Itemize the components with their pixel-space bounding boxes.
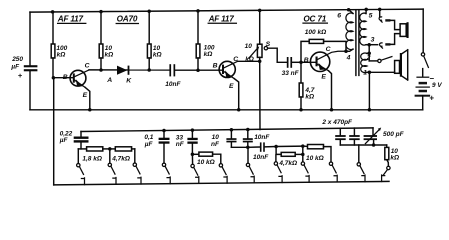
svg-text:1,8 kΩ: 1,8 kΩ xyxy=(82,155,102,162)
svg-text:µF: µF xyxy=(144,141,154,148)
resistor R10 4.7kOhm xyxy=(276,147,303,168)
junction: Q1 emitter to 0V rail xyxy=(88,108,92,112)
resistor R3 10kOhm xyxy=(147,10,161,70)
svg-text:B: B xyxy=(213,62,218,69)
switch SW3 xyxy=(133,149,141,184)
resistor R2 10kOhm xyxy=(99,10,113,70)
resistor R5 100kOhm feedback xyxy=(301,29,346,62)
label: AF117 second stage xyxy=(208,14,237,23)
switch SW11 xyxy=(357,145,365,182)
junction: Q1 base node xyxy=(52,76,56,80)
wire: Q1 base lead xyxy=(53,77,73,79)
junction: between R7 and R8 xyxy=(108,147,112,151)
wire: pot bottom down to tone bus (crosses 0V rail) xyxy=(259,61,261,129)
svg-text:5: 5 xyxy=(369,13,373,20)
svg-text:kΩ: kΩ xyxy=(57,52,66,59)
svg-text:10nF: 10nF xyxy=(165,81,181,88)
svg-text:6: 6 xyxy=(337,13,341,20)
svg-text:33 nF: 33 nF xyxy=(282,70,300,77)
junction: OC71 collector / transformer primary node xyxy=(344,50,348,54)
wire: left antenna lead down to C 250uF xyxy=(29,12,31,65)
wire: base node down to tone switch bank xyxy=(53,78,55,185)
junction: secondary pin5 to +9V rail xyxy=(364,8,368,12)
svg-text:+: + xyxy=(18,71,23,80)
junction: R3 to signal line xyxy=(147,68,151,72)
svg-text:100 kΩ: 100 kΩ xyxy=(305,29,326,36)
wire: C 250uF to 0V rail xyxy=(29,71,31,110)
wire: speaker LS2 bottom lead xyxy=(369,71,394,73)
capacitor C7 10nF xyxy=(243,128,271,148)
svg-text:nF: nF xyxy=(211,141,220,148)
capacitor C4 0.1uF xyxy=(144,129,170,148)
label: OC71 xyxy=(303,14,327,23)
wire: C6/C7 bottoms joined xyxy=(231,146,247,148)
svg-text:A: A xyxy=(106,77,112,84)
svg-text:250: 250 xyxy=(11,56,23,63)
wire: +9V top supply rail xyxy=(30,9,423,12)
svg-text:kΩ: kΩ xyxy=(245,56,254,63)
wire: switch common bottom bus xyxy=(54,181,389,185)
wire: vertical through R10/R11 node xyxy=(302,146,304,162)
svg-text:10: 10 xyxy=(245,43,253,50)
label: OA70 xyxy=(116,15,138,24)
capacitor C3 0.22uF xyxy=(59,131,89,149)
svg-text:C: C xyxy=(326,46,331,53)
switch SW2 xyxy=(108,149,116,184)
wire: C8 to R10 node xyxy=(265,145,303,148)
switch SW4 xyxy=(162,144,170,184)
svg-text:10 kΩ: 10 kΩ xyxy=(306,155,324,162)
switch SW1 xyxy=(77,149,85,185)
junction: speaker return / pin1 node xyxy=(368,71,372,75)
capacitor C1 10nF coupling xyxy=(165,64,181,88)
svg-text:C: C xyxy=(85,63,90,70)
capacitor C8 10nF series xyxy=(248,142,269,161)
junction: R4 to Q2 base line xyxy=(196,68,200,72)
junction: R11 left node xyxy=(301,144,305,148)
svg-text:2 x 470pF: 2 x 470pF xyxy=(321,119,353,126)
switch SW8 xyxy=(274,155,282,183)
svg-text:OA70: OA70 xyxy=(117,15,138,24)
capacitor C10 470pF xyxy=(349,128,360,145)
svg-text:µF: µF xyxy=(10,63,20,70)
resistor R1 100kOhm xyxy=(51,10,68,78)
svg-text:+: + xyxy=(429,94,434,103)
capacitor C6 10nF xyxy=(211,128,237,148)
resistor R12 10kOhm xyxy=(385,145,399,166)
battery BT1 9V xyxy=(415,69,443,110)
svg-text:1: 1 xyxy=(363,70,367,77)
wire: right edge down to power switch xyxy=(422,9,424,53)
svg-text:3: 3 xyxy=(371,37,375,44)
earphone jack lower contact from pin3 xyxy=(369,34,400,49)
speaker LS1 (earphone) xyxy=(400,22,409,38)
svg-text:B: B xyxy=(304,57,309,64)
switch SW5 xyxy=(191,154,199,183)
svg-text:E: E xyxy=(83,92,88,99)
transformer T1 secondary winding (pins 5-3) xyxy=(360,9,375,45)
speaker LS2 (main) xyxy=(395,50,408,80)
wire: 0V bottom rail xyxy=(30,109,423,111)
svg-text:10nF: 10nF xyxy=(254,134,270,141)
junction: pin1 to 0V rail xyxy=(368,108,372,112)
potentiometer P1 10kOhm volume with switch S xyxy=(245,9,262,64)
transformer T1 secondary winding (pins 2-1) xyxy=(361,53,371,77)
wire: pin3 to pin2 link and to speaker switch xyxy=(368,45,370,61)
wire: S contact to C 33nF xyxy=(268,48,287,62)
resistor R9 10kOhm xyxy=(192,152,220,166)
wire: branch node to R 1.8k xyxy=(78,148,86,150)
svg-text:500 pF: 500 pF xyxy=(383,131,405,138)
svg-text:AF 117: AF 117 xyxy=(57,15,84,24)
switch S wiper contact xyxy=(264,41,270,50)
capacitor C11 500pF variable xyxy=(364,128,405,146)
svg-text:E: E xyxy=(229,83,234,90)
switch SW7 xyxy=(246,147,254,183)
svg-text:4,7kΩ: 4,7kΩ xyxy=(111,155,130,162)
junction: Q3 emitter to 0V rail xyxy=(330,108,334,112)
svg-text:E: E xyxy=(321,74,326,81)
wire: tuning cap bottom line xyxy=(340,144,386,146)
switch SW12 xyxy=(382,166,390,181)
junction: Q2 collector / pot node xyxy=(258,60,262,64)
wire: C 10nF to Q2 base xyxy=(175,69,222,71)
junction: R6 to 0V rail xyxy=(299,108,303,112)
junction: R10/R11 node xyxy=(301,153,305,157)
resistor R11 10kOhm xyxy=(303,145,331,162)
svg-text:4,7kΩ: 4,7kΩ xyxy=(278,160,297,167)
switch: on/off power switch xyxy=(421,53,428,68)
svg-text:10nF: 10nF xyxy=(253,154,269,161)
resistor R7 1.8kOhm xyxy=(82,147,102,163)
label: AF117 first stage xyxy=(57,15,86,24)
junction: pin2 node xyxy=(367,52,371,56)
svg-text:kΩ: kΩ xyxy=(390,154,399,161)
svg-text:OC 71: OC 71 xyxy=(303,14,326,23)
transistor Q2 AF117 xyxy=(213,56,239,110)
svg-text:10 kΩ: 10 kΩ xyxy=(197,159,215,166)
svg-text:kΩ: kΩ xyxy=(153,52,162,59)
wire: tone network top bus xyxy=(81,128,373,132)
resistor R4 100kOhm xyxy=(196,9,215,70)
switch SW9 xyxy=(301,162,309,182)
junction: Q3 base node xyxy=(299,61,303,65)
svg-text:nF: nF xyxy=(176,141,185,148)
junction: C5 bottom node xyxy=(191,153,195,157)
diode D1 OA70 xyxy=(106,66,132,85)
capacitor 250uF xyxy=(10,56,37,80)
junction: series cap node xyxy=(246,146,250,150)
wire: R 1.8k to R 4.7k xyxy=(103,148,116,150)
transistor Q3 OC71 xyxy=(301,46,346,110)
wire: detector signal line Q1 collector to C 10nF xyxy=(89,69,169,71)
switch SW6 xyxy=(219,164,227,184)
svg-text:9 V: 9 V xyxy=(432,82,442,89)
transformer T1 primary winding (pins 6-4) xyxy=(337,10,353,62)
junction: C8 right node xyxy=(274,145,278,149)
svg-text:B: B xyxy=(63,74,68,81)
resistor R6 4.7kOhm xyxy=(299,62,315,110)
svg-text:AF 117: AF 117 xyxy=(208,14,235,23)
resistor R8 4.7kOhm xyxy=(111,147,131,163)
wire: Q2 collector to volume pot xyxy=(238,60,260,62)
junction: pin3 node xyxy=(367,43,371,47)
transistor Q1 AF117 xyxy=(63,63,90,110)
switch SW10 xyxy=(329,162,337,182)
junction: R2 to signal line xyxy=(99,68,103,72)
capacitor C9 470pF xyxy=(335,128,346,145)
capacitor C2 33nF xyxy=(282,57,300,77)
svg-text:kΩ: kΩ xyxy=(204,51,213,58)
svg-text:kΩ: kΩ xyxy=(105,52,114,59)
svg-text:kΩ: kΩ xyxy=(305,94,314,101)
transformer T1 core xyxy=(356,10,359,75)
junction: Q2 emitter to 0V rail xyxy=(237,108,241,112)
wire: C 33nF to Q3 base node xyxy=(292,61,301,63)
svg-text:µF: µF xyxy=(59,137,69,144)
svg-text:4: 4 xyxy=(346,54,351,61)
wire: pin1 node down to 0V rail xyxy=(368,72,370,110)
earphone jack upper contact from +9V rail xyxy=(378,8,400,30)
switch: speaker on/off xyxy=(369,57,392,63)
capacitor C5 33nF xyxy=(176,128,198,154)
wire: R8 right end xyxy=(132,148,135,150)
junction: primary pin6 to +9V rail xyxy=(347,8,351,12)
junction: C11 bottom xyxy=(372,143,376,147)
